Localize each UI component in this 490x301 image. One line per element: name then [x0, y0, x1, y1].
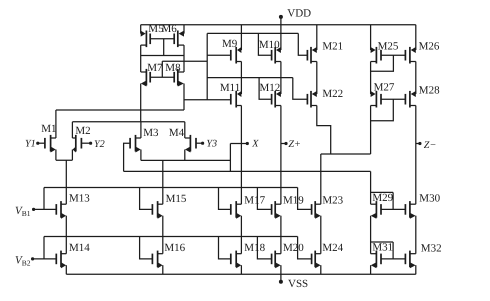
svg-text:M27: M27 — [374, 82, 395, 94]
svg-text:M12: M12 — [260, 82, 281, 94]
svg-text:VSS: VSS — [288, 278, 308, 290]
svg-text:M28: M28 — [419, 85, 440, 97]
svg-text:M17: M17 — [244, 194, 265, 206]
svg-text:M24: M24 — [322, 242, 343, 254]
svg-text:M18: M18 — [244, 242, 265, 254]
svg-text:M11: M11 — [220, 82, 240, 94]
svg-text:Y2: Y2 — [94, 139, 105, 150]
svg-text:M15: M15 — [166, 193, 187, 205]
svg-text:M4: M4 — [169, 127, 185, 139]
svg-text:M1: M1 — [41, 123, 56, 135]
svg-text:VDD: VDD — [287, 7, 311, 19]
svg-text:M8: M8 — [165, 62, 181, 74]
svg-text:Y3: Y3 — [206, 139, 217, 150]
svg-text:M21: M21 — [322, 41, 343, 53]
svg-text:M20: M20 — [283, 242, 304, 254]
svg-text:M6: M6 — [162, 23, 178, 35]
svg-text:M29: M29 — [372, 192, 393, 204]
svg-text:M13: M13 — [69, 193, 90, 205]
svg-text:M32: M32 — [421, 243, 442, 255]
svg-text:M31: M31 — [372, 241, 393, 253]
svg-text:M9: M9 — [222, 38, 238, 50]
svg-text:M7: M7 — [147, 62, 163, 74]
svg-text:Z+: Z+ — [288, 139, 301, 150]
svg-text:M14: M14 — [69, 242, 90, 254]
svg-text:Y1: Y1 — [25, 138, 36, 149]
svg-text:M2: M2 — [75, 125, 90, 137]
svg-text:X: X — [251, 139, 259, 150]
svg-text:M3: M3 — [143, 127, 159, 139]
svg-text:M16: M16 — [164, 242, 185, 254]
svg-text:Z−: Z− — [424, 140, 437, 151]
svg-text:M22: M22 — [322, 88, 343, 100]
svg-text:M19: M19 — [283, 194, 304, 206]
svg-text:M25: M25 — [378, 40, 399, 52]
svg-text:M26: M26 — [419, 40, 440, 52]
svg-text:M10: M10 — [259, 39, 280, 51]
svg-text:M23: M23 — [322, 194, 343, 206]
svg-text:M30: M30 — [419, 192, 440, 204]
